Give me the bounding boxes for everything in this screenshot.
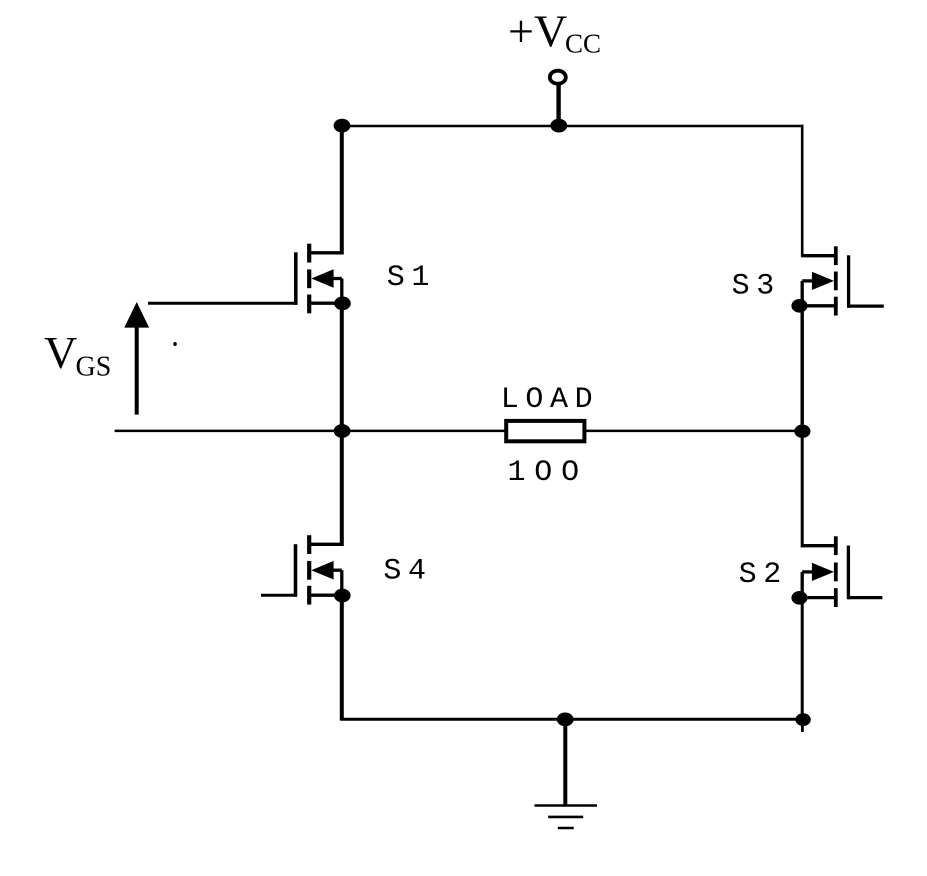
S4 channel segment (drain) — [307, 535, 311, 554]
wire top rail — [340, 125, 803, 127]
+VCC terminal circle — [550, 71, 566, 84]
stray dot mark — [173, 342, 177, 346]
S2 gate lead wire — [848, 596, 882, 599]
transistor S2 (NMOS, gate right, mirrored) — [800, 536, 882, 607]
node junction mid-right — [794, 425, 810, 438]
resistor LOAD body — [506, 421, 584, 441]
S4 channel segment (source) — [307, 586, 311, 605]
wire VCC stub — [556, 85, 560, 126]
S1 channel segment (drain) — [307, 244, 311, 263]
S2 channel segment (drain) — [834, 536, 838, 555]
S1 gate lead wire (to VGS net) — [148, 302, 296, 305]
svg-text:S4: S4 — [383, 554, 432, 588]
node S3 source junction — [791, 299, 807, 313]
transistor S4 (NMOS, gate left) — [261, 535, 342, 604]
S2 source lead — [800, 596, 836, 599]
S3 drain lead — [802, 254, 835, 257]
S4 body-to-source link — [332, 569, 342, 572]
wire right rail lower (S2 source to bottom) — [801, 598, 804, 720]
S1 channel segment (source) — [307, 295, 311, 314]
ground bar long — [534, 804, 597, 807]
node junction top-left — [334, 119, 351, 133]
wire right rail upper (top corner to S3 drain) — [801, 125, 804, 257]
wire left rail lower (S4 source to bottom) — [340, 596, 344, 721]
wire left rail (S1 source to mid node) — [340, 303, 344, 431]
S2 channel segment (source) — [834, 588, 838, 607]
node junction bottom-middle ground — [557, 713, 574, 727]
S1 gate electrode — [294, 252, 298, 305]
wire ground stub — [563, 719, 567, 806]
ground bar short — [558, 827, 574, 830]
wire left rail (mid node to S4 drain) — [340, 431, 344, 546]
S1 body arrow — [311, 269, 333, 288]
svg-text:S3: S3 — [732, 269, 781, 303]
S2 gate electrode — [847, 546, 850, 600]
S3 channel segment (drain) — [834, 246, 838, 265]
S1 source lead — [310, 302, 342, 305]
svg-text:CC: CC — [565, 29, 601, 59]
wire stub below bottom-right node — [801, 725, 804, 732]
S4 source lead — [310, 594, 342, 597]
svg-text:1OO: 1OO — [508, 456, 588, 490]
svg-text:S1: S1 — [387, 261, 436, 295]
S4 drain lead — [310, 543, 342, 546]
S2 drain lead — [802, 544, 835, 547]
transistor S1 (NMOS, gate left) — [148, 244, 342, 314]
svg-text:+V: +V — [508, 6, 567, 57]
S3 body arrow — [812, 272, 834, 290]
S2 channel segment (body) — [834, 563, 838, 582]
VGS polarity arrow — [124, 302, 149, 415]
label +VCC — [508, 6, 601, 59]
S4 gate electrode — [294, 544, 298, 597]
VGS arrow head — [124, 302, 149, 328]
node S2 source junction — [791, 591, 807, 605]
S1 drain lead — [310, 251, 342, 254]
S3 gate lead wire — [849, 304, 884, 307]
wire right rail (mid node to S2 drain) — [801, 431, 804, 548]
node S1 source junction — [334, 297, 351, 311]
S3 body-to-source link — [802, 279, 813, 282]
wire middle load net — [115, 430, 803, 433]
ground bar middle — [548, 816, 583, 819]
S3 channel segment (body) — [834, 272, 838, 291]
label VGS — [44, 327, 111, 383]
node junction bottom-right — [795, 713, 810, 726]
wire bottom rail — [340, 718, 803, 721]
S1 body-to-source link — [332, 277, 342, 280]
svg-text:LOAD: LOAD — [501, 383, 599, 417]
wire left rail upper (top to S1 drain) — [340, 126, 344, 255]
node S4 source junction — [334, 589, 351, 603]
S4 body arrow — [311, 561, 333, 580]
node junction top-middle VCC — [550, 119, 567, 133]
S3 gate electrode — [847, 255, 850, 307]
S3 source lead — [800, 304, 836, 307]
node junction mid-left — [334, 424, 351, 438]
S2 body-to-source link — [802, 570, 813, 573]
svg-text:V: V — [44, 327, 77, 378]
S4 gate lead wire — [261, 594, 296, 597]
svg-text:GS: GS — [76, 352, 112, 383]
VGS arrow shaft — [135, 326, 139, 415]
S2 body arrow — [812, 563, 834, 581]
S4 channel segment (body) — [307, 561, 311, 580]
ground symbol — [534, 806, 597, 829]
wire right rail (S3 source to mid node) — [801, 306, 804, 431]
S1 channel segment (body) — [307, 269, 311, 288]
svg-text:S2: S2 — [739, 558, 788, 592]
S3 channel segment (source) — [834, 297, 838, 316]
transistor S3 (NMOS, gate right, mirrored) — [800, 246, 884, 315]
